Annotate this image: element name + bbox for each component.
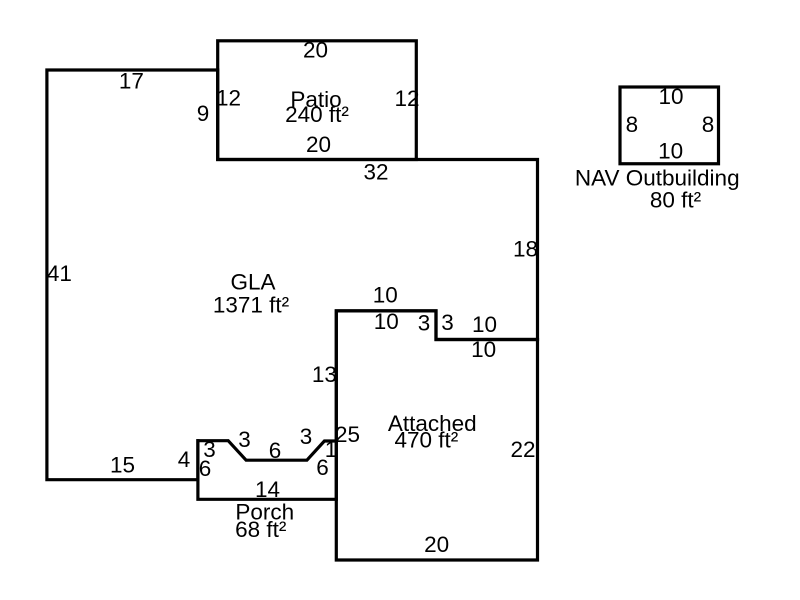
svg-text:80 ft²: 80 ft² bbox=[650, 187, 702, 212]
svg-text:GLA: GLA bbox=[230, 269, 275, 294]
svg-text:3: 3 bbox=[441, 310, 454, 335]
svg-text:6: 6 bbox=[269, 438, 282, 463]
svg-text:10: 10 bbox=[373, 283, 398, 308]
svg-text:18: 18 bbox=[513, 237, 538, 262]
svg-text:3: 3 bbox=[238, 427, 251, 452]
svg-text:15: 15 bbox=[110, 453, 135, 478]
svg-text:3: 3 bbox=[300, 424, 313, 449]
svg-text:12: 12 bbox=[394, 86, 419, 111]
porch outline bbox=[198, 441, 336, 500]
svg-text:8: 8 bbox=[626, 112, 639, 137]
svg-text:25: 25 bbox=[335, 422, 360, 447]
svg-text:4: 4 bbox=[178, 447, 191, 472]
svg-text:32: 32 bbox=[363, 160, 388, 185]
svg-text:470 ft²: 470 ft² bbox=[395, 428, 459, 453]
GLA outline bbox=[47, 70, 538, 480]
svg-text:3: 3 bbox=[418, 311, 431, 336]
svg-text:9: 9 bbox=[197, 101, 210, 126]
svg-text:20: 20 bbox=[303, 38, 328, 63]
svg-text:68 ft²: 68 ft² bbox=[235, 517, 287, 542]
svg-text:1371 ft²: 1371 ft² bbox=[213, 293, 290, 318]
attached garage outline bbox=[336, 311, 537, 560]
svg-text:8: 8 bbox=[702, 112, 715, 137]
svg-text:10: 10 bbox=[374, 309, 399, 334]
svg-text:12: 12 bbox=[216, 86, 241, 111]
svg-text:10: 10 bbox=[658, 139, 683, 164]
svg-text:17: 17 bbox=[119, 69, 144, 94]
svg-text:10: 10 bbox=[472, 312, 497, 337]
svg-text:10: 10 bbox=[658, 84, 683, 109]
svg-text:6: 6 bbox=[199, 456, 212, 481]
patio outline bbox=[218, 41, 417, 160]
svg-text:22: 22 bbox=[510, 437, 535, 462]
svg-text:14: 14 bbox=[255, 477, 280, 502]
svg-text:240 ft²: 240 ft² bbox=[285, 102, 349, 127]
svg-text:13: 13 bbox=[312, 362, 337, 387]
svg-text:20: 20 bbox=[424, 532, 449, 557]
svg-text:41: 41 bbox=[47, 261, 72, 286]
svg-text:10: 10 bbox=[471, 337, 496, 362]
svg-text:6: 6 bbox=[316, 455, 329, 480]
svg-text:20: 20 bbox=[306, 132, 331, 157]
outbuilding outline bbox=[620, 87, 719, 164]
